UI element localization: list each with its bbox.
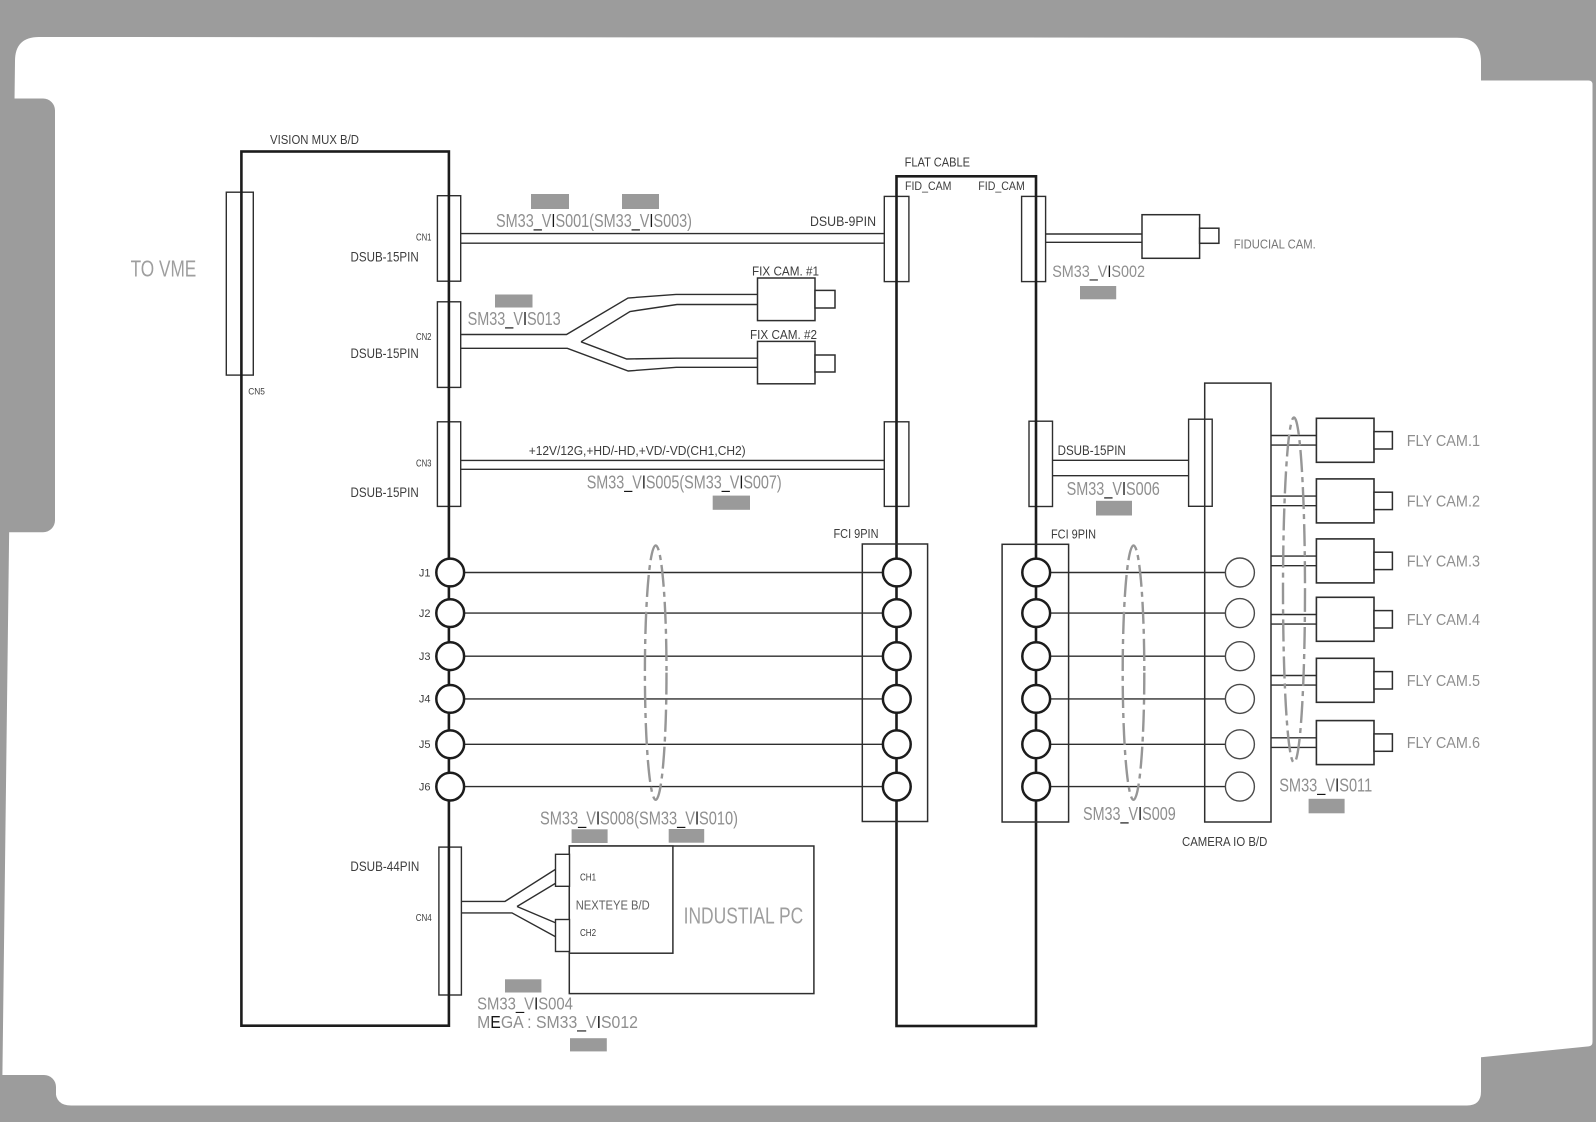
wire FLY CAM.1 pair lower xyxy=(1271,444,1316,446)
wire FCI right to camera io 6 xyxy=(1050,786,1225,788)
svg-text:FLY CAM.4: FLY CAM.4 xyxy=(1407,612,1480,629)
connector FCI 9PIN left box xyxy=(862,544,927,822)
plug FLY CAM.5 xyxy=(1374,672,1392,689)
wire fiducial pair lower xyxy=(1046,241,1142,243)
svg-text:CN2: CN2 xyxy=(416,332,432,343)
svg-text:J1: J1 xyxy=(419,567,431,579)
wire CN2 split bottom-inner xyxy=(581,342,758,359)
svg-text:NEXTEYE B/D: NEXTEYE B/D xyxy=(576,897,650,912)
pin FCI-left 2 xyxy=(883,599,911,627)
svg-text:CH2: CH2 xyxy=(580,927,596,939)
plug FLY CAM.2 xyxy=(1374,492,1392,509)
node J2 xyxy=(436,599,464,627)
board CAMERA IO B/D xyxy=(1205,383,1271,822)
wire CN3 pair upper xyxy=(461,459,885,461)
svg-text:FID_CAM: FID_CAM xyxy=(978,179,1025,193)
camera FLY CAM.5 xyxy=(1316,658,1374,702)
redaction box over VIS002 xyxy=(1080,286,1116,299)
cable bundle ellipse 1 xyxy=(645,545,667,799)
svg-text:SM33_VIS005(SM33_VIS007): SM33_VIS005(SM33_VIS007) xyxy=(587,472,782,494)
wire FCI right to camera io 2 xyxy=(1050,612,1225,614)
svg-text:SM33_VIS011: SM33_VIS011 xyxy=(1279,776,1372,797)
connector DSUB-15 flat cable right xyxy=(1029,421,1053,506)
plug FIX CAM #2 xyxy=(815,355,835,372)
node J4 xyxy=(436,685,464,713)
wire CN2 split top-outer xyxy=(461,294,758,334)
wire FLY CAM.5 pair lower xyxy=(1271,684,1316,686)
cable bundle ellipse 2 xyxy=(1123,545,1145,799)
wire J6 to FCI left xyxy=(464,786,883,788)
node J1 xyxy=(436,559,464,587)
svg-text:CAMERA IO B/D: CAMERA IO B/D xyxy=(1182,834,1267,849)
connector CN4 xyxy=(439,847,462,995)
svg-text:CN4: CN4 xyxy=(416,913,432,924)
pin FCI-right 1 xyxy=(1022,559,1050,587)
svg-text:SM33_VIS002: SM33_VIS002 xyxy=(1052,263,1145,281)
svg-text:SM33_VIS008(SM33_VIS010): SM33_VIS008(SM33_VIS010) xyxy=(540,807,738,829)
redaction box above VIS004 xyxy=(505,979,541,992)
camera FIDUCIAL CAM xyxy=(1142,215,1200,259)
connector FID_CAM right xyxy=(1022,196,1046,281)
pin CAMERA IO 1 xyxy=(1225,558,1254,587)
wire FLY CAM.5 pair upper xyxy=(1271,675,1316,677)
node J6 xyxy=(436,773,464,801)
svg-text:FLY CAM.2: FLY CAM.2 xyxy=(1407,493,1480,510)
redaction box over VIS011 xyxy=(1309,799,1345,814)
wire FLY CAM.4 pair upper xyxy=(1271,614,1316,616)
camera FLY CAM.2 xyxy=(1316,479,1374,523)
wire FLY CAM.6 pair upper xyxy=(1271,737,1316,739)
wire FCI right to camera io 4 xyxy=(1050,698,1225,700)
plug FLY CAM.4 xyxy=(1374,611,1392,628)
svg-text:SM33_VIS009: SM33_VIS009 xyxy=(1083,804,1176,825)
svg-text:FCI 9PIN: FCI 9PIN xyxy=(1051,527,1096,542)
wire J4 to FCI left xyxy=(464,698,883,700)
camera FLY CAM.1 xyxy=(1316,418,1374,462)
wire J2 to FCI left xyxy=(464,612,883,614)
connector DSUB-15 camera io xyxy=(1189,419,1213,506)
svg-text:DSUB-15PIN: DSUB-15PIN xyxy=(351,345,419,361)
svg-text:DSUB-44PIN: DSUB-44PIN xyxy=(350,859,419,874)
wire FCI right to camera io 1 xyxy=(1050,572,1225,574)
box INDUSTIAL PC xyxy=(569,846,814,994)
svg-text:+12V/12G,+HD/-HD,+VD/-VD(CH1,C: +12V/12G,+HD/-HD,+VD/-VD(CH1,CH2) xyxy=(529,443,746,458)
wire J1 to FCI left xyxy=(464,572,883,574)
redaction box over VIS010 xyxy=(669,829,705,843)
svg-text:FIX CAM. #1: FIX CAM. #1 xyxy=(752,264,819,279)
wire FLY CAM.3 pair lower xyxy=(1271,565,1316,567)
board FLAT CABLE xyxy=(897,176,1037,1026)
svg-text:FLY CAM.1: FLY CAM.1 xyxy=(1407,433,1480,450)
redaction box over VIS003 xyxy=(622,194,659,209)
node J3 xyxy=(436,642,464,670)
connector CN1 xyxy=(437,196,460,282)
svg-text:SM33_VIS006: SM33_VIS006 xyxy=(1067,479,1160,500)
board VISION MUX B/D xyxy=(241,152,449,1026)
bottom-left corner block xyxy=(0,1075,56,1122)
pin FCI-left 4 xyxy=(883,685,911,713)
svg-text:J4: J4 xyxy=(419,694,431,706)
plug FIX CAM #1 xyxy=(815,290,835,308)
wire FLY CAM.1 pair upper xyxy=(1271,435,1316,437)
svg-text:CN5: CN5 xyxy=(248,387,265,398)
pin FCI-right 2 xyxy=(1022,599,1050,627)
wire CN1 pair lower xyxy=(461,242,885,244)
svg-text:J2: J2 xyxy=(419,608,431,620)
svg-text:MEGA : SM33_VIS012: MEGA : SM33_VIS012 xyxy=(477,1012,638,1033)
svg-text:FLY CAM.3: FLY CAM.3 xyxy=(1407,553,1480,570)
svg-text:FIX CAM. #2: FIX CAM. #2 xyxy=(750,327,817,342)
wire camera-supply pair lower xyxy=(1053,475,1189,477)
connector CN3 xyxy=(437,422,460,507)
redaction box over VIS008 xyxy=(572,829,608,843)
svg-text:VISION MUX B/D: VISION MUX B/D xyxy=(270,132,359,147)
pin CAMERA IO 2 xyxy=(1225,599,1254,628)
wire CN3 pair lower xyxy=(461,468,885,470)
svg-text:DSUB-15PIN: DSUB-15PIN xyxy=(351,249,419,265)
svg-text:CH1: CH1 xyxy=(580,872,596,884)
plug FLY CAM.3 xyxy=(1374,552,1392,569)
wire fiducial pair upper xyxy=(1046,233,1142,235)
wire FLY CAM.2 pair upper xyxy=(1271,495,1316,497)
svg-text:TO VME: TO VME xyxy=(131,256,197,282)
pin CAMERA IO 5 xyxy=(1225,730,1254,759)
svg-text:DSUB-15PIN: DSUB-15PIN xyxy=(1058,442,1126,458)
camera FIX CAM #2 xyxy=(758,341,816,383)
wire FCI right to camera io 5 xyxy=(1050,743,1225,745)
svg-text:J5: J5 xyxy=(419,739,431,751)
pin CAMERA IO 6 xyxy=(1225,772,1254,801)
wire CN2 split top-inner xyxy=(581,305,758,342)
pin FCI-right 4 xyxy=(1022,685,1050,713)
box NEXTEYE B/D xyxy=(569,846,673,953)
pin FCI-right 3 xyxy=(1022,642,1050,670)
wire CN2 split bottom-outer xyxy=(461,348,758,371)
redaction box over VIS005 xyxy=(713,496,750,510)
svg-text:FID_CAM: FID_CAM xyxy=(905,179,952,193)
wire FLY CAM.2 pair lower xyxy=(1271,505,1316,507)
plug FLY CAM.1 xyxy=(1374,432,1392,449)
redaction box over VIS006 xyxy=(1096,501,1132,516)
wire CN4 split bottom-inner xyxy=(517,907,556,924)
pin FCI-left 5 xyxy=(883,730,911,758)
cable bundle ellipse 3 xyxy=(1283,418,1305,763)
wire J5 to FCI left xyxy=(464,743,883,745)
svg-text:FIDUCIAL CAM.: FIDUCIAL CAM. xyxy=(1234,236,1316,251)
redaction box over VIS013 xyxy=(495,295,533,308)
wire FLY CAM.3 pair upper xyxy=(1271,555,1316,557)
svg-text:CN3: CN3 xyxy=(416,459,432,470)
camera FLY CAM.3 xyxy=(1316,539,1374,583)
pin FCI-right 6 xyxy=(1022,773,1050,801)
connector FID_CAM left xyxy=(884,196,909,281)
svg-text:FLY CAM.5: FLY CAM.5 xyxy=(1407,673,1480,690)
camera FLY CAM.6 xyxy=(1316,721,1374,765)
redaction box below MEGA xyxy=(570,1038,607,1051)
connector CH1 xyxy=(556,854,570,886)
wire FLY CAM.6 pair lower xyxy=(1271,746,1316,748)
svg-text:DSUB-15PIN: DSUB-15PIN xyxy=(351,484,419,500)
svg-text:FCI 9PIN: FCI 9PIN xyxy=(834,526,879,541)
svg-text:DSUB-9PIN: DSUB-9PIN xyxy=(810,214,876,229)
connector DSUB-15 flat cable left xyxy=(884,422,909,507)
svg-text:SM33_VIS001(SM33_VIS003): SM33_VIS001(SM33_VIS003) xyxy=(496,210,692,232)
wire J3 to FCI left xyxy=(464,655,883,657)
plug FIDUCIAL CAM xyxy=(1200,228,1219,243)
pin CAMERA IO 4 xyxy=(1225,684,1254,713)
connector FCI 9PIN right box xyxy=(1002,544,1069,822)
left tab xyxy=(0,99,55,533)
svg-text:SM33_VIS013: SM33_VIS013 xyxy=(468,309,561,330)
plug FLY CAM.6 xyxy=(1374,734,1392,751)
pin FCI-left 1 xyxy=(883,559,911,587)
bottom-left fillet xyxy=(56,1090,72,1106)
wire camera-supply pair upper xyxy=(1053,459,1189,461)
wire FLY CAM.4 pair lower xyxy=(1271,623,1316,625)
svg-text:J6: J6 xyxy=(419,781,431,793)
connector CN2 xyxy=(437,302,460,388)
wire FCI right to camera io 3 xyxy=(1050,655,1225,657)
pin FCI-left 3 xyxy=(883,642,911,670)
pin FCI-left 6 xyxy=(883,773,911,801)
svg-text:CN1: CN1 xyxy=(416,232,432,243)
camera FIX CAM #1 xyxy=(758,278,816,321)
redaction box over VIS001 xyxy=(531,194,569,209)
pin CAMERA IO 3 xyxy=(1225,642,1254,671)
wire CN4 split top-inner xyxy=(517,883,556,907)
svg-text:INDUSTIAL PC: INDUSTIAL PC xyxy=(684,903,804,929)
svg-text:FLAT CABLE: FLAT CABLE xyxy=(905,154,971,169)
pin FCI-right 5 xyxy=(1022,730,1050,758)
wire CN4 split bottom-outer xyxy=(461,913,556,937)
svg-text:J3: J3 xyxy=(419,651,431,663)
wire CN1 pair upper xyxy=(461,233,885,235)
svg-text:FLY CAM.6: FLY CAM.6 xyxy=(1407,735,1480,752)
node J5 xyxy=(436,730,464,758)
connector CN5 xyxy=(226,192,253,375)
connector CH2 xyxy=(556,920,570,952)
camera FLY CAM.4 xyxy=(1316,597,1374,641)
wire CN4 split top-outer xyxy=(461,869,556,901)
